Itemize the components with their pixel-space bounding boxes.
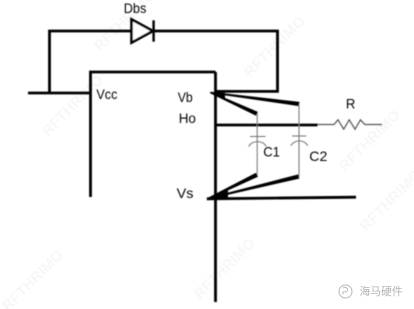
svg-text:Ho: Ho (179, 110, 196, 126)
svg-text:海马硬件: 海马硬件 (360, 284, 403, 298)
svg-text:Dbs: Dbs (124, 0, 147, 16)
svg-text:Vs: Vs (177, 185, 194, 201)
svg-text:Vcc: Vcc (96, 86, 117, 102)
svg-text:Vb: Vb (178, 89, 193, 105)
svg-text:C2: C2 (309, 148, 327, 164)
svg-text:C1: C1 (263, 144, 280, 160)
svg-text:R: R (346, 95, 356, 111)
